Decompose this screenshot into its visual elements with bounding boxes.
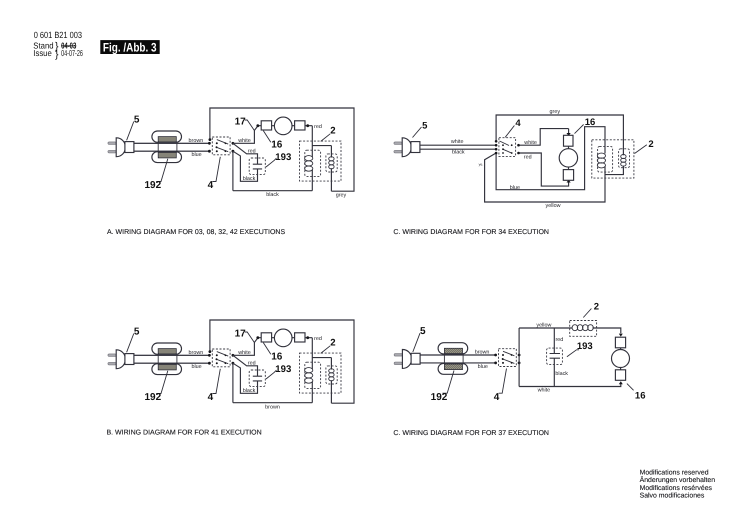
svg-text:brown: brown bbox=[265, 404, 280, 410]
svg-text:C. WIRING DIAGRAM FOR FOR 34 E: C. WIRING DIAGRAM FOR FOR 34 EXECUTION bbox=[393, 229, 549, 236]
svg-text:4: 4 bbox=[515, 118, 521, 129]
svg-text:white: white bbox=[537, 388, 551, 394]
svg-text:0 601 B21 003: 0 601 B21 003 bbox=[34, 30, 82, 40]
svg-text:white: white bbox=[523, 140, 537, 146]
svg-text:}: } bbox=[55, 48, 59, 60]
svg-text:grey: grey bbox=[336, 193, 347, 199]
svg-text:5: 5 bbox=[422, 120, 428, 131]
svg-text:16: 16 bbox=[635, 391, 646, 402]
svg-text:blue: blue bbox=[510, 185, 520, 191]
svg-text:2: 2 bbox=[648, 139, 653, 150]
svg-text:Modifications reserved: Modifications reserved bbox=[640, 470, 709, 477]
svg-text:black: black bbox=[452, 150, 465, 156]
svg-text:red: red bbox=[556, 337, 564, 343]
svg-text:yellow: yellow bbox=[546, 203, 561, 209]
svg-text:black: black bbox=[555, 371, 568, 377]
svg-text:Issue: Issue bbox=[33, 48, 52, 58]
svg-text:Fig. /Abb. 3: Fig. /Abb. 3 bbox=[103, 41, 157, 55]
svg-text:Salvo modificaciones: Salvo modificaciones bbox=[640, 492, 705, 499]
svg-text:Änderungen vorbehalten: Änderungen vorbehalten bbox=[640, 476, 716, 484]
svg-text:red: red bbox=[524, 154, 532, 160]
svg-text:A. WIRING DIAGRAM FOR 03, 08,: A. WIRING DIAGRAM FOR 03, 08, 32, 42 EXE… bbox=[107, 229, 285, 236]
svg-text:2: 2 bbox=[594, 302, 599, 313]
svg-text:04-07-26: 04-07-26 bbox=[61, 48, 83, 58]
svg-text:black: black bbox=[266, 192, 279, 198]
svg-text:grey: grey bbox=[550, 109, 561, 115]
svg-text:white: white bbox=[450, 139, 464, 145]
svg-text:193: 193 bbox=[577, 341, 593, 352]
svg-text:B. WIRING DIAGRAM FOR FOR 41 E: B. WIRING DIAGRAM FOR FOR 41 EXECUTION bbox=[107, 429, 262, 436]
svg-text:yellow: yellow bbox=[536, 323, 551, 329]
svg-text:Modifications resérvées: Modifications resérvées bbox=[640, 484, 713, 492]
svg-text:C. WIRING DIAGRAM FOR FOR 37 E: C. WIRING DIAGRAM FOR FOR 37 EXECUTION bbox=[393, 430, 549, 437]
svg-text:16: 16 bbox=[585, 117, 596, 128]
svg-text:ye.: ye. bbox=[479, 162, 484, 166]
